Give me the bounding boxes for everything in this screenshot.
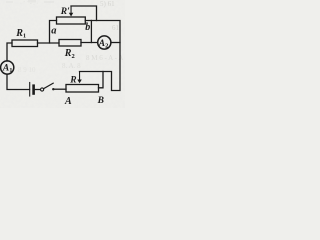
svg-text:B: B — [97, 96, 104, 106]
svg-text:a: a — [51, 26, 56, 37]
svg-text:8. A. 8: 8. A. 8 — [62, 62, 81, 70]
svg-text:b: b — [85, 22, 90, 33]
svg-text:R: R — [69, 76, 76, 86]
svg-text:61: 61 — [112, 24, 120, 32]
svg-text:A: A — [64, 96, 72, 107]
svg-text:5) 61: 5) 61 — [100, 0, 115, 8]
svg-text:8 M 6 - A - A: 8 M 6 - A - A — [86, 54, 123, 62]
svg-text:8 9 10: 8 9 10 — [18, 66, 36, 74]
svg-text:R′: R′ — [60, 7, 70, 17]
